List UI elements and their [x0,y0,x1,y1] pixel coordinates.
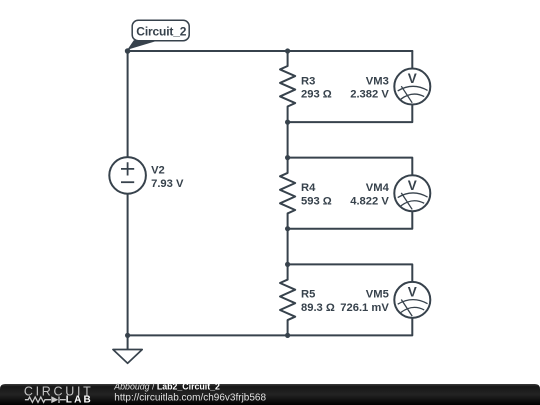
net label Circuit_2 callout [127,20,189,50]
wire bottom left rail (ground node to R5 bottom node) [128,334,288,336]
wire top rail [128,50,413,52]
node R4 bottom [285,226,290,231]
svg-text:7.93 V: 7.93 V [151,178,184,190]
voltmeter VM4 [394,175,430,211]
label R5 value 89.3 ohm [301,289,335,314]
wire middle column segment R3-R4 [287,107,289,173]
svg-text:89.3 Ω: 89.3 Ω [301,302,335,314]
resistor R5 [280,280,295,321]
node R3 bottom [285,120,290,125]
svg-text:Circuit_2: Circuit_2 [136,24,186,38]
wire left column upper (node A to V2 top) [127,51,129,157]
svg-text:VM5: VM5 [366,289,389,301]
voltmeter VM5 [394,282,430,318]
ground [113,335,142,363]
node R4 top [285,155,290,160]
node R5 bottom [285,333,290,338]
svg-text:V: V [408,71,417,86]
wire loop3 top (R5 top node to VM5 top) [288,264,413,281]
label VM5 value 726.1 mV [340,289,389,314]
svg-text:VM4: VM4 [366,182,390,194]
footer bar [0,384,540,405]
voltmeter VM3 [394,69,430,105]
label R4 value 593 ohm [301,182,332,207]
svg-text:593 Ω: 593 Ω [301,195,332,207]
svg-text:Abboudg / Lab2_Circuit_2: Abboudg / Lab2_Circuit_2 [113,382,220,392]
wire middle column segment row1-R3 [287,51,289,66]
node junction dots [125,48,290,338]
wire loop1 bottom (R3 bottom node to VM3 bottom) [288,105,413,123]
label VM4 value 4.822 V [350,182,389,207]
svg-text:R4: R4 [301,182,316,194]
svg-text:V: V [408,178,417,193]
label R3 value 293 ohm [301,75,332,100]
wire loop1 right (top rail to VM3 top) [411,51,413,69]
svg-text:V: V [408,284,417,299]
wire loop2 top (R4 top node to VM4 top) [288,158,413,176]
wire middle column segment R5-bottom [287,320,289,335]
svg-text:R5: R5 [301,289,315,301]
wire loop3 bottom (R5 bottom node to VM5 bottom) [288,318,413,336]
node R5 top [285,262,290,267]
footer CircuitLab logo [24,385,94,405]
resistor R3 [280,66,295,107]
svg-text:2.382 V: 2.382 V [350,89,389,101]
node ground [125,333,130,338]
node top-left corner [125,48,131,54]
label VM3 value 2.382 V [350,75,389,100]
svg-text:726.1 mV: 726.1 mV [340,302,389,314]
svg-text:VM3: VM3 [366,75,389,87]
wire left column lower (V2 bottom to ground node) [127,194,129,336]
svg-text:R3: R3 [301,75,315,87]
wire loop2 bottom (R4 bottom node to VM4 bottom) [288,211,413,229]
svg-text:293 Ω: 293 Ω [301,89,332,101]
svg-text:http://circuitlab.com/ch96v3fr: http://circuitlab.com/ch96v3frjb568 [114,393,266,404]
node top rail / R3 [285,48,290,53]
resistor R4 [280,173,295,214]
svg-text:4.822 V: 4.822 V [350,195,389,207]
label V2 value 7.93 V [151,164,184,190]
svg-text:LAB: LAB [66,395,93,405]
wire middle column segment R4-R5 [287,213,289,279]
svg-text:V2: V2 [151,164,165,176]
voltage source V2 [109,157,146,194]
